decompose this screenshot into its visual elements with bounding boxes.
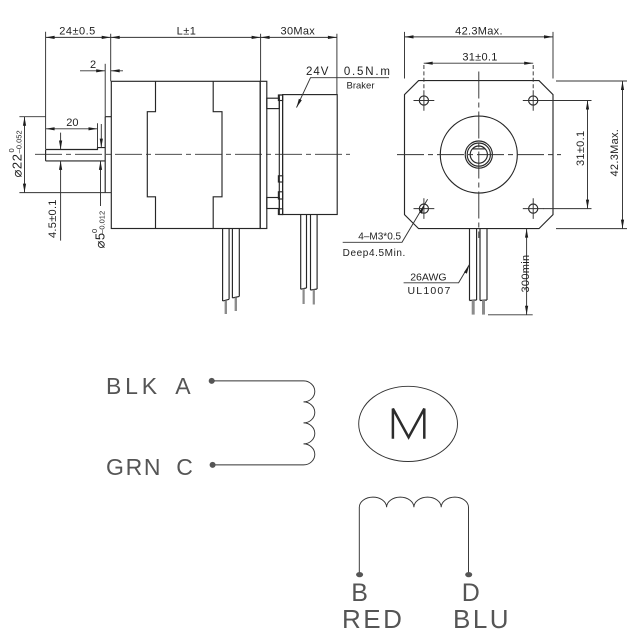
dim line (587, 101, 589, 209)
coil A-C (vertical) (304, 381, 315, 465)
dim 300min: extension (488, 314, 533, 316)
svg-text:30Max: 30Max (281, 26, 316, 38)
node C terminal dot (210, 462, 216, 468)
svg-text:42.3Max.: 42.3Max. (609, 129, 621, 177)
vertical centre line (478, 72, 480, 239)
svg-text:20: 20 (66, 117, 78, 129)
brake mounting tab top (267, 98, 280, 108)
text ⌀22 0/-0.052 (7, 130, 25, 177)
text 42.3Max. right (rotated) (609, 129, 621, 177)
brake lead wire 1 (301, 215, 307, 290)
dim 2 arrows (96, 69, 105, 72)
leader 4-M3 to bottom-left hole (343, 199, 428, 242)
svg-text:UL1007: UL1007 (408, 285, 452, 297)
svg-text:300min: 300min (520, 255, 532, 293)
node A terminal dot (209, 378, 215, 384)
dim 31±0.1 right: extensions (543, 101, 592, 209)
dim 4.5 arrows (59, 141, 62, 150)
coil B-D (horizontal) (359, 497, 468, 572)
wire C (215, 464, 304, 466)
screw hole top-left (419, 96, 428, 105)
motor symbol M1 ellipse (359, 386, 458, 461)
leader arrow (464, 265, 469, 274)
rear end plate (260, 81, 267, 228)
dim 20 : extension at flat step (97, 123, 99, 147)
arrows (525, 229, 528, 238)
dim ⌀5 arrows (100, 139, 103, 148)
dim ⌀5 lines (100, 124, 103, 206)
svg-text:24V: 24V (306, 66, 329, 78)
svg-text:42.3Max.: 42.3Max. (455, 25, 503, 37)
motor lead wire 2 (side view) (232, 229, 239, 298)
svg-text:4.5±0.1: 4.5±0.1 (47, 199, 59, 238)
bearing hub outer circle (465, 141, 492, 168)
leader arrow (419, 205, 424, 214)
svg-text:L±1: L±1 (177, 26, 197, 38)
strip stud mid2 (278, 192, 282, 199)
shaft circle ⌀5 (470, 146, 487, 163)
svg-text:4–M3*0.5: 4–M3*0.5 (358, 232, 401, 243)
svg-text:BLU: BLU (453, 604, 511, 634)
svg-text:–0.012: –0.012 (98, 211, 107, 234)
brake body (283, 95, 338, 215)
motor body outline (111, 81, 260, 228)
brake leader line (297, 78, 390, 108)
svg-text:26AWG: 26AWG (410, 272, 446, 284)
brake lead wire 1 conductor (303, 289, 305, 304)
dim ⌀22 arrows (23, 117, 26, 126)
dim 2 lines (80, 70, 123, 72)
dim 4.5±0.1 line (60, 133, 62, 241)
svg-text:GRN C: GRN C (106, 454, 195, 480)
svg-text:–0.052: –0.052 (15, 130, 24, 153)
svg-text:RED: RED (342, 604, 404, 634)
brake lead wire 2 (311, 215, 318, 291)
body stack contour left (147, 81, 155, 228)
dim 31±0.1 top line (424, 62, 534, 64)
motor lead wire 1 conductor (225, 301, 227, 314)
svg-text:31±0.1: 31±0.1 (462, 52, 497, 64)
dim 24±0.5 / L±1 / 30Max chain: extension lines (46, 32, 337, 149)
arrows (424, 62, 433, 65)
arrows (586, 101, 589, 110)
centre line (side view) (35, 153, 350, 155)
svg-text:B: B (351, 579, 368, 607)
brake mounting tab bottom (267, 198, 280, 209)
strip stud top (278, 95, 282, 101)
svg-text:0.5N.m: 0.5N.m (344, 66, 392, 78)
brake mounting strip (279, 95, 282, 215)
bearing hub inner circle (467, 143, 490, 166)
dim 42.3Max top line (405, 36, 554, 38)
leader 26AWG underline (404, 265, 470, 283)
dim 20 line (46, 128, 98, 130)
strip stud mid1 (278, 176, 282, 182)
text 31±0.1 right (rotated) (575, 131, 587, 166)
screw hole top-right (529, 96, 538, 105)
svg-text:Deep4.5Min.: Deep4.5Min. (343, 248, 406, 259)
svg-text:⌀22: ⌀22 (10, 153, 25, 177)
wire A (214, 380, 304, 382)
motor lead wire 2 conductor (235, 298, 237, 312)
motor symbol letter M (393, 409, 424, 439)
dim 42.3Max top: extensions (405, 32, 554, 79)
node B terminal dot (356, 572, 363, 577)
dim ⌀22 extension lines (19, 117, 111, 193)
svg-text:BLK A: BLK A (106, 373, 194, 399)
svg-text:2: 2 (90, 59, 96, 71)
body stack contour right (213, 81, 222, 228)
front lead wire 2 (480, 229, 487, 301)
arrows of top chain (46, 36, 55, 39)
pilot boss circle ⌀22 (440, 116, 517, 193)
node D terminal dot (465, 572, 472, 577)
dim line (622, 81, 624, 229)
svg-text:Braker: Braker (347, 80, 375, 91)
dim 20 arrows (46, 127, 55, 130)
dim 42.3Max right: extensions (556, 81, 627, 229)
dim ⌀22 line (24, 117, 26, 193)
dim chain line (46, 36, 337, 38)
arrows (405, 35, 414, 38)
motor lead wire 1 (side view) (223, 229, 230, 302)
dim 2 : extension (104, 64, 106, 117)
svg-text:24±0.5: 24±0.5 (59, 26, 96, 38)
front wire 2 conductor (482, 300, 485, 314)
strip stud bottom (278, 209, 282, 215)
screw hole bottom-right (529, 204, 538, 213)
shaft flat chord (473, 148, 485, 150)
pilot boss face (105, 117, 111, 193)
front face outline (chamfered square) (405, 81, 554, 229)
text 4.5±0.1 (47, 199, 59, 238)
horizontal centre line (397, 154, 561, 156)
dim line (526, 229, 528, 315)
brake leader arrow (297, 99, 302, 108)
motor shaft (side view) (46, 148, 106, 161)
front wire 1 conductor (472, 300, 475, 314)
text ⌀5 0/-0.012 (90, 211, 108, 249)
arrows (621, 81, 624, 90)
front lead wire 1 (470, 229, 477, 301)
svg-text:D: D (462, 579, 480, 607)
screw hole bottom-left (419, 204, 428, 213)
brake lead wire 2 conductor (313, 290, 315, 305)
svg-text:31±0.1: 31±0.1 (575, 131, 587, 166)
text 300min (rotated) (520, 255, 532, 293)
dim 31±0.1 top: dashed extensions to holes (424, 65, 533, 90)
